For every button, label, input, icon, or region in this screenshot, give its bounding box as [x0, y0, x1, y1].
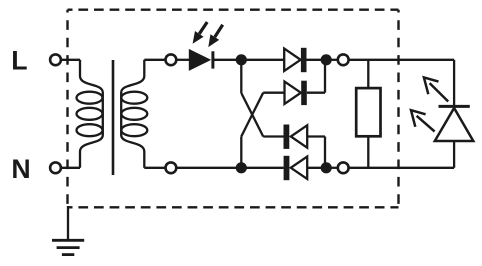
wire node B to D4 — [241, 167, 283, 169]
resistor R1 — [356, 60, 380, 168]
node D (DC- junction) — [321, 162, 332, 173]
wire node B up segment — [240, 137, 242, 168]
terminal N — [50, 162, 61, 173]
diode D2 — [263, 81, 325, 105]
wire N to transformer — [61, 167, 80, 169]
wire L to transformer — [61, 59, 80, 61]
wire node A to D1 — [241, 59, 284, 61]
ground symbol — [52, 240, 84, 254]
photodiode light arrow 1 — [193, 22, 208, 44]
transformer T1 secondary winding — [121, 60, 147, 168]
wire D2 cathode up to node C — [324, 60, 326, 93]
svg-text:L: L — [11, 46, 27, 76]
photodiode D5 — [189, 49, 213, 71]
wire diagonal node A to D3 — [241, 93, 263, 137]
diode D1 — [284, 48, 326, 72]
wire secondary top to terminal — [144, 59, 165, 61]
terminal secondary top — [166, 54, 177, 65]
node B (AC bottom junction) — [236, 162, 247, 173]
terminal secondary bottom — [166, 162, 177, 173]
wire terminal to photodiode D5 — [176, 59, 189, 61]
photodiode light arrow 2 — [208, 25, 222, 47]
node C (DC+ junction) — [321, 54, 332, 65]
enclosure dashed box — [68, 10, 399, 208]
wire secondary bottom to terminal — [144, 167, 165, 169]
transformer T1 core — [112, 60, 115, 175]
wire transformer to node B — [176, 167, 241, 169]
LED D6 — [435, 106, 474, 167]
diode D3 — [263, 125, 325, 149]
diode D4 — [284, 156, 327, 180]
terminal L — [50, 54, 61, 65]
transformer T1 primary winding — [77, 60, 103, 168]
wire D3 anode down to node D — [324, 137, 326, 168]
wire photodiode to node A — [213, 59, 241, 61]
LED light arrow 2 — [411, 110, 435, 131]
wire DC- rail — [348, 167, 454, 169]
wire node A down — [240, 60, 242, 93]
node A (AC top junction) — [236, 54, 247, 65]
wire diagonal D2 to node B — [241, 93, 263, 137]
wire DC+ rail — [348, 59, 454, 61]
terminal DC- — [338, 162, 349, 173]
svg-text:N: N — [11, 154, 30, 184]
wire node C to output terminal — [326, 59, 338, 61]
wire node D to output terminal — [326, 167, 338, 169]
LED light arrow 1 — [424, 77, 448, 101]
wire right rail down to LED — [453, 60, 455, 107]
terminal DC+ — [338, 54, 349, 65]
ground stem — [67, 206, 69, 240]
